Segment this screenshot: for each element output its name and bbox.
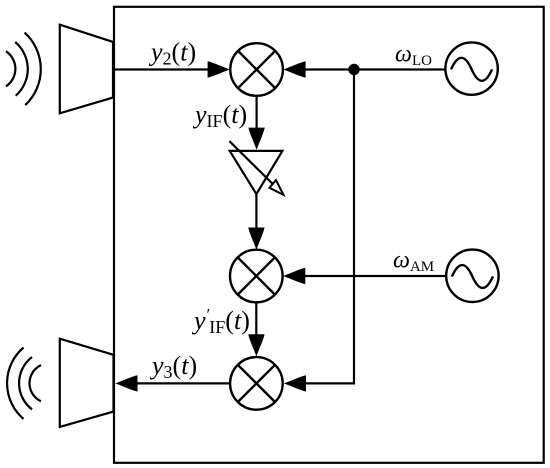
wire from mixer M2 down to mixer M3 [255, 302, 257, 336]
wire from mixer M1 down to amplifier [256, 96, 258, 130]
svg-text:yIF(t): yIF(t) [192, 100, 247, 131]
arrowhead into mixer M2 right [283, 268, 305, 284]
arrowhead into mixer M1 left [208, 61, 230, 77]
variable amplifier triangle [230, 151, 283, 194]
arrowhead into amplifier top [248, 128, 264, 150]
mixer M1 [230, 43, 283, 96]
svg-text:y2(t): y2(t) [148, 38, 196, 69]
wire from LO junction to mixer M1 [305, 68, 446, 70]
variable-gain diagonal arrow shaft [229, 141, 273, 184]
wire from amplifier down to mixer M2 [255, 194, 257, 230]
arrowhead into mixer M2 top [248, 228, 264, 250]
system box [114, 7, 544, 463]
wire y3 from mixer M3 to speaker [136, 382, 230, 384]
svg-text:y3(t): y3(t) [149, 351, 197, 382]
speaker horn (output) [60, 339, 114, 427]
antenna horn (input) [60, 25, 113, 114]
arrowhead into speaker [115, 375, 137, 391]
svg-text:y′IF(t): y′IF(t) [191, 305, 250, 337]
mixer M3 [230, 357, 283, 410]
input wave arcs [6, 33, 41, 106]
wire y2 from antenna to mixer M1 [114, 68, 209, 70]
wire from oscillator AM to mixer M2 [305, 275, 446, 277]
junction node dot [348, 64, 359, 75]
svg-text:ωLO: ωLO [395, 42, 432, 70]
output wave arcs [7, 348, 41, 419]
arrowhead into mixer M1 right [283, 61, 305, 77]
svg-text:ωAM: ωAM [393, 248, 434, 276]
mixer M2 [230, 250, 283, 303]
arrowhead into mixer M3 top [248, 334, 264, 356]
arrowhead into mixer M3 right [284, 375, 306, 391]
variable-gain open arrowhead [269, 180, 283, 195]
oscillator LO [445, 42, 497, 94]
vertical wire from junction to bottom mixer [306, 70, 354, 384]
oscillator AM [446, 250, 498, 302]
